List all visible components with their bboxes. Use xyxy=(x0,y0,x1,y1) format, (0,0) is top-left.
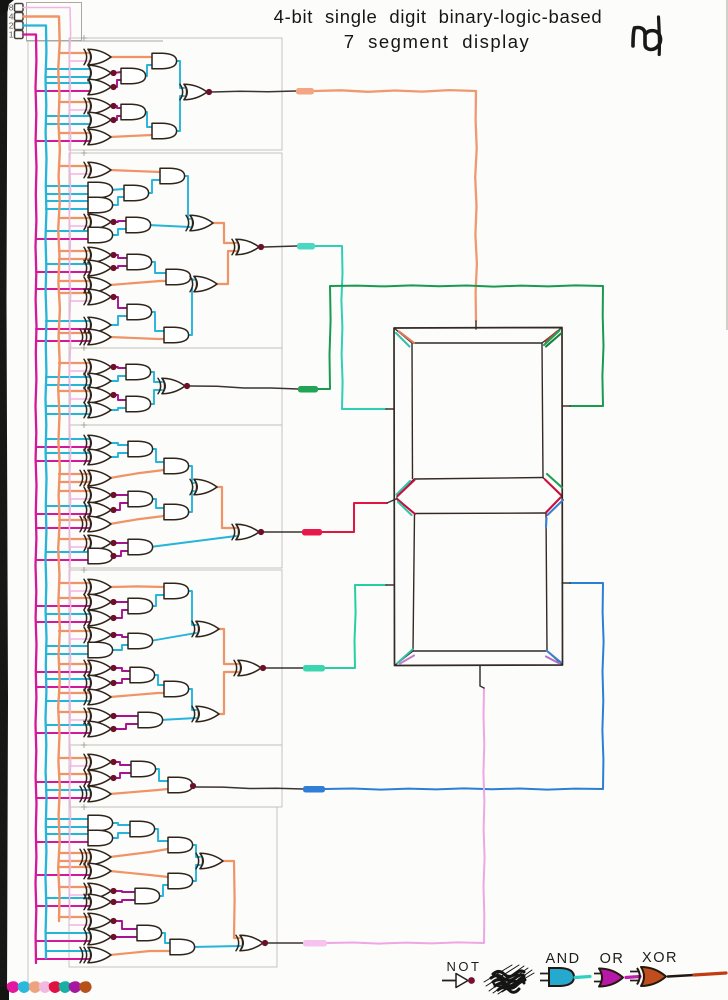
wire xyxy=(146,180,160,193)
wire xyxy=(186,288,192,335)
XOR gate (segment g) xyxy=(88,502,111,518)
wire: input stubs to gate at y=205 xyxy=(46,200,90,202)
wire: input stubs to gate at y=57 xyxy=(59,52,90,54)
wire: input stubs to gate at y=937 xyxy=(46,932,90,934)
wire (display stub) xyxy=(562,405,570,407)
AND gate (segment d) xyxy=(88,815,113,831)
XOR gate (segment g) xyxy=(194,479,217,495)
output wire to segment c xyxy=(325,583,604,790)
AND gate (segment c) xyxy=(131,761,156,777)
AND gate (segment f) xyxy=(127,304,152,320)
wire xyxy=(214,487,236,528)
wire: input stubs to gate at y=285 xyxy=(59,280,90,282)
output node (segment a) xyxy=(206,89,212,95)
wire xyxy=(216,251,236,284)
wire: input stubs to gate at y=137 xyxy=(59,132,90,134)
AND gate (segment f) xyxy=(88,182,113,198)
accent b-top green2 xyxy=(546,334,561,347)
wire xyxy=(186,491,194,512)
XOR gate (segment d) xyxy=(88,929,111,945)
wire xyxy=(186,466,194,483)
bevel bottom-right xyxy=(547,651,563,665)
wire: input stubs to gate at y=524 xyxy=(59,519,90,521)
AND gate (segment b) xyxy=(126,396,151,412)
wire xyxy=(110,645,128,650)
wire xyxy=(153,769,168,781)
wire xyxy=(110,849,168,857)
connector highlight (segment d) xyxy=(303,940,327,947)
OR gate (segment a) xyxy=(88,79,111,95)
accent g-right2 red xyxy=(546,498,561,513)
wire xyxy=(110,170,160,172)
wire xyxy=(114,221,126,222)
wire: input stubs to gate at y=106 xyxy=(59,101,90,103)
wire xyxy=(114,679,130,683)
output wire to segment d xyxy=(327,688,485,944)
bevel top-left xyxy=(394,328,412,343)
wire: input stubs to gate at y=297 xyxy=(59,292,90,294)
input rail 2 (cyan) xyxy=(23,26,47,959)
output wire to segment a xyxy=(314,90,477,321)
wire xyxy=(114,601,128,603)
wire xyxy=(110,585,164,588)
wire xyxy=(114,715,138,717)
wire xyxy=(192,946,240,947)
accent b-top green xyxy=(544,331,560,346)
accent c-top blue2 xyxy=(545,518,548,527)
XOR gate (segment a) xyxy=(88,98,111,114)
wire: input stubs to gate at y=762 xyxy=(59,757,90,759)
wire (black lead) xyxy=(196,787,303,789)
wire xyxy=(214,629,238,664)
XOR gate (segment f) xyxy=(190,215,213,231)
connector highlight (segment f) xyxy=(297,243,315,250)
XOR gate (segment b) xyxy=(88,359,111,375)
wire: input stubs to gate at y=729 xyxy=(46,724,90,726)
AND gate (segment f) xyxy=(88,227,113,243)
wire xyxy=(143,65,152,76)
AND gate (segment f) xyxy=(88,197,113,213)
wire (display stub) xyxy=(387,499,396,503)
wire xyxy=(220,861,240,938)
wire xyxy=(148,225,190,227)
accent c-bottom blue xyxy=(547,651,562,663)
wire: input stubs to gate at y=443 xyxy=(46,438,90,440)
XOR gate (segment e) xyxy=(88,721,111,737)
7-segment display outer frame xyxy=(394,328,563,666)
XOR gate (segment e) xyxy=(88,675,111,691)
AND gate (segment d) xyxy=(170,939,195,955)
wire xyxy=(174,61,184,88)
XOR gate (segment g) xyxy=(88,449,111,465)
AND gate (segment d) xyxy=(135,888,160,904)
XOR gate (segment e) xyxy=(196,621,219,637)
AND gate (segment g) xyxy=(164,504,189,520)
wire: input stubs to gate at y=235 xyxy=(46,230,90,232)
marker swatch dot xyxy=(18,981,31,993)
output node (segment b) xyxy=(184,383,190,389)
AND gate (segment a) xyxy=(152,123,177,139)
XOR gate (segment f) xyxy=(236,239,259,255)
AND gate (segment f) xyxy=(166,269,191,285)
wire: input stubs to gate at y=120 xyxy=(46,115,90,117)
AND gate (segment a) xyxy=(152,53,177,69)
svg-text:NOT: NOT xyxy=(447,959,482,974)
wire: input stubs to gate at y=618 xyxy=(46,613,90,615)
marker swatch dot xyxy=(39,981,52,993)
OR gate (segment a) xyxy=(88,112,111,128)
wire: input stubs to gate at y=587 xyxy=(59,582,90,584)
AND gate (segment e) xyxy=(138,712,163,728)
output wire to segment b xyxy=(318,285,604,406)
scanner black edge xyxy=(0,0,8,1000)
wire: input stubs to gate at y=410 xyxy=(46,405,90,407)
nd logo xyxy=(633,28,661,50)
accent g-left2 red xyxy=(398,500,416,515)
AND gate (segment e) xyxy=(130,667,155,683)
XOR gate (segment g) xyxy=(88,487,111,503)
left margin guide line xyxy=(27,41,29,985)
wire: input stubs to gate at y=543 xyxy=(59,538,90,540)
wire xyxy=(214,672,238,714)
wire xyxy=(110,56,152,58)
wire: input stubs to gate at y=955 xyxy=(46,950,90,952)
accent f-top teal xyxy=(396,333,410,347)
wire xyxy=(114,503,128,510)
AND gate (segment d) xyxy=(137,925,162,941)
wire xyxy=(114,255,127,258)
wire xyxy=(150,536,236,547)
wire xyxy=(114,395,126,400)
wire: input stubs to gate at y=891 xyxy=(59,886,90,888)
wire xyxy=(110,135,152,137)
wire: input stubs to gate at y=778 xyxy=(59,773,90,775)
top square inner bottom edge (segment g top) xyxy=(414,478,543,480)
accent f-bottom teal xyxy=(397,481,411,495)
marker swatch dot xyxy=(59,981,72,993)
wire xyxy=(110,823,130,825)
XOR gate (segment g) xyxy=(88,435,111,451)
wire xyxy=(148,372,162,382)
wire: input stubs to gate at y=510 xyxy=(46,505,90,507)
wire xyxy=(114,773,131,778)
XOR2 gate (segment f) xyxy=(88,329,111,345)
XOR2 gate (segment d) xyxy=(88,947,111,963)
XOR gate (segment d) xyxy=(88,894,111,910)
gate block outline (segment c) xyxy=(69,745,282,807)
legend AND gate xyxy=(540,974,549,981)
segment d inner edge xyxy=(413,650,547,652)
wire xyxy=(152,829,168,841)
XOR gate (segment b) xyxy=(88,373,111,389)
XOR gate (segment a) xyxy=(88,129,111,145)
wire: input stubs to gate at y=650 xyxy=(46,645,90,647)
wire xyxy=(114,936,137,938)
wire xyxy=(212,223,236,243)
AND gate (segment f) xyxy=(127,254,152,270)
wire (display stub) xyxy=(480,666,484,688)
accent g-right red xyxy=(545,480,561,495)
AND gate (segment a) xyxy=(121,104,146,120)
wire: input stubs to gate at y=857 xyxy=(59,852,90,854)
wire xyxy=(110,693,164,697)
wire: input stubs to gate at y=190 xyxy=(46,185,90,187)
AND gate (segment a) xyxy=(121,68,146,84)
wire xyxy=(150,595,164,606)
connector highlight (segment b) xyxy=(298,386,318,393)
accent g-left red xyxy=(398,480,415,496)
XOR gate (segment g) xyxy=(236,524,259,540)
XOR gate (segment b) xyxy=(88,402,111,418)
wire xyxy=(110,789,168,794)
legend XOR gate xyxy=(630,972,639,981)
wire: input stubs to gate at y=87 xyxy=(46,82,90,84)
input rail 1 (magenta) xyxy=(23,35,37,964)
wire: input stubs to gate at y=73 xyxy=(46,68,90,70)
bevel mid-left-lower xyxy=(397,498,415,514)
svg-text:AND: AND xyxy=(545,951,580,967)
wire xyxy=(114,106,121,108)
wire: input stubs to gate at y=823 xyxy=(46,818,90,820)
wire xyxy=(114,921,137,929)
XOR2 gate (segment d) xyxy=(88,849,111,865)
wire xyxy=(149,262,166,273)
wire xyxy=(114,266,127,268)
XOR gate (segment f) xyxy=(88,214,111,230)
AND gate (segment f) xyxy=(160,168,185,184)
gate block outline (segment b) xyxy=(69,348,282,425)
gate block outline (segment d) xyxy=(69,807,277,967)
wire: input stubs to gate at y=367 xyxy=(59,362,90,364)
guide frame around input pins xyxy=(27,3,82,41)
wire xyxy=(114,610,128,618)
connector highlight (segment a) xyxy=(296,88,314,95)
AND gate (segment f) xyxy=(126,217,151,233)
XOR gate (segment e) xyxy=(88,627,111,643)
wire xyxy=(110,951,170,955)
wire: input stubs to gate at y=495 xyxy=(59,490,90,492)
AND gate (segment g) xyxy=(128,441,153,457)
connector highlight (segment e) xyxy=(303,665,325,672)
XOR gate (segment d) xyxy=(88,863,111,879)
svg-text:XOR: XOR xyxy=(642,950,678,966)
gate block outline (segment f) xyxy=(69,153,282,348)
accent d-left violet xyxy=(400,656,414,664)
AND gate (segment d) xyxy=(168,873,193,889)
AND gate (segment g) xyxy=(164,458,189,474)
wire xyxy=(190,845,200,857)
bevel bottom-left xyxy=(395,651,414,666)
wire: input stubs to gate at y=222 xyxy=(59,217,90,219)
marker swatch dot xyxy=(79,981,92,993)
accent b-bottom green xyxy=(547,474,562,488)
wire (display stub) xyxy=(562,582,570,584)
svg-text:4-bit single digit binary-logi: 4-bit single digit binary-logic-based xyxy=(274,6,603,27)
wire xyxy=(174,96,184,131)
wire xyxy=(110,516,164,524)
wire: input stubs to gate at y=602 xyxy=(59,597,90,599)
scan shadow right edge xyxy=(726,0,728,330)
input rail 4 (orange) xyxy=(23,17,60,922)
AND gate (segment f) xyxy=(164,327,189,343)
output node (segment d) xyxy=(262,940,268,946)
AND gate (segment e) xyxy=(164,681,189,697)
XOR gate (segment e) xyxy=(88,610,111,626)
XOR gate (segment e) xyxy=(88,708,111,724)
segment e inner edge xyxy=(413,514,415,652)
XOR2 gate (segment c) xyxy=(88,786,111,802)
wire (black lead) xyxy=(212,91,296,92)
wire xyxy=(152,675,164,685)
bevel mid-right-upper xyxy=(543,478,562,497)
accent a-left salmon xyxy=(399,332,414,344)
wire xyxy=(110,443,128,445)
wire xyxy=(160,718,196,720)
accent e-top teal xyxy=(398,502,412,515)
marker swatch dot xyxy=(29,981,42,993)
XOR gate (segment f) xyxy=(88,260,111,276)
XOR gate (segment e) xyxy=(88,689,111,705)
XOR gate (segment f) xyxy=(194,276,217,292)
wire: input stubs to gate at y=457 xyxy=(46,452,90,454)
wire xyxy=(114,724,138,729)
wire xyxy=(150,449,164,462)
wire xyxy=(110,408,126,410)
svg-text:OR: OR xyxy=(600,951,625,967)
output node (segment c) xyxy=(190,783,196,789)
wire xyxy=(186,591,196,625)
accent e-bottom teal xyxy=(398,650,413,664)
wire xyxy=(159,933,170,943)
XOR gate (segment b) xyxy=(88,387,111,403)
legend OR gate xyxy=(594,974,602,982)
XOR gate (segment f) xyxy=(88,247,111,263)
output node (segment g) xyxy=(258,529,264,535)
AND gate (segment c) xyxy=(168,777,193,793)
wire (display stub) xyxy=(386,584,394,586)
wire: input stubs to gate at y=170 xyxy=(59,165,90,167)
svg-text:1: 1 xyxy=(9,30,14,40)
marker swatch dot xyxy=(69,981,82,993)
accent d-right violet xyxy=(546,657,560,664)
wire: input stubs to gate at y=683 xyxy=(46,678,90,680)
wire xyxy=(188,277,194,280)
XOR gate (segment e) xyxy=(88,660,111,676)
AND gate (segment e) xyxy=(128,633,153,649)
bevel mid-left-upper xyxy=(397,479,415,498)
wire: input stubs to gate at y=635 xyxy=(59,630,90,632)
wire xyxy=(110,337,164,339)
svg-text:7 segment display: 7 segment display xyxy=(344,31,531,52)
wire xyxy=(149,312,164,331)
bottom square inner top edge (segment g bottom) xyxy=(415,512,547,515)
AND gate (segment f) xyxy=(124,185,149,201)
XOR gate (segment d) xyxy=(88,913,111,929)
AND gate (segment g) xyxy=(128,491,153,507)
wire (black lead) xyxy=(190,386,298,389)
wire xyxy=(157,885,168,896)
wire: input stubs to gate at y=381 xyxy=(46,376,90,378)
wire: input stubs to gate at y=325 xyxy=(46,320,90,322)
XOR gate (segment c) xyxy=(88,770,111,786)
wire: input stubs to gate at y=921 xyxy=(59,916,90,918)
wire xyxy=(114,762,131,765)
wire xyxy=(182,176,190,219)
wire: input stubs to gate at y=268 xyxy=(46,263,90,265)
XOR gate (segment d) xyxy=(240,935,263,951)
XOR gate (segment e) xyxy=(196,706,219,722)
wire xyxy=(114,367,126,368)
connector highlight (segment c) xyxy=(303,786,325,793)
OR gate (segment a) xyxy=(88,65,111,81)
AND gate (segment g) xyxy=(88,548,113,564)
wire xyxy=(110,453,128,457)
XOR2 gate (segment g) xyxy=(88,470,111,486)
AND gate (segment d) xyxy=(168,837,193,853)
XOR gate (segment b) xyxy=(162,378,185,394)
wire xyxy=(143,112,152,127)
output node (segment e) xyxy=(260,665,266,671)
accent a-right red xyxy=(546,332,558,342)
wire xyxy=(110,833,130,838)
wire xyxy=(190,865,200,881)
wire xyxy=(186,689,196,710)
wire: input stubs to gate at y=478 xyxy=(59,473,90,475)
wire: input stubs to gate at y=395 xyxy=(59,390,90,392)
segment f inner edge xyxy=(411,343,414,479)
gate block outline (segment g) xyxy=(69,425,282,568)
segment c inner edge xyxy=(546,513,547,651)
legend NOT gate xyxy=(442,980,456,982)
wire: input stubs to gate at y=838 xyxy=(46,833,90,835)
wire: input stubs to gate at y=337 xyxy=(59,332,90,334)
AND gate (segment e) xyxy=(164,583,189,599)
wire (black lead) xyxy=(268,942,303,944)
wire xyxy=(114,116,121,120)
XOR gate (segment e) xyxy=(88,594,111,610)
wire xyxy=(110,376,126,381)
bevel top-right xyxy=(542,328,562,344)
AND gate (segment b) xyxy=(126,364,151,380)
wire xyxy=(110,229,126,235)
AND gate (segment g) xyxy=(128,539,153,555)
bevel mid-right-lower xyxy=(546,497,562,514)
wire: input stubs to gate at y=794 xyxy=(46,789,90,791)
XOR gate (segment f) xyxy=(88,317,111,333)
wire: input stubs to gate at y=902 xyxy=(46,897,90,899)
XOR gate (segment e) xyxy=(238,660,261,676)
wire xyxy=(114,542,128,544)
AND gate (segment e) xyxy=(128,598,153,614)
XOR gate (segment e) xyxy=(88,579,111,595)
XOR2 gate (segment g) xyxy=(88,516,111,532)
wire xyxy=(150,633,196,641)
wire xyxy=(110,281,166,285)
XOR gate (segment c) xyxy=(88,754,111,770)
output wire to segment f xyxy=(315,246,386,409)
XOR gate (segment d) xyxy=(200,853,223,869)
XOR gate (segment d) xyxy=(88,883,111,899)
gate block outline (segment a) xyxy=(69,38,282,150)
wire (black lead) xyxy=(264,531,302,533)
wire (black lead) xyxy=(266,667,303,669)
wire xyxy=(110,189,124,190)
wire xyxy=(148,390,162,404)
XOR gate (segment g) xyxy=(88,535,111,551)
AND gate (segment d) xyxy=(88,830,113,846)
wire (black lead) xyxy=(264,246,297,247)
wire xyxy=(114,297,127,308)
